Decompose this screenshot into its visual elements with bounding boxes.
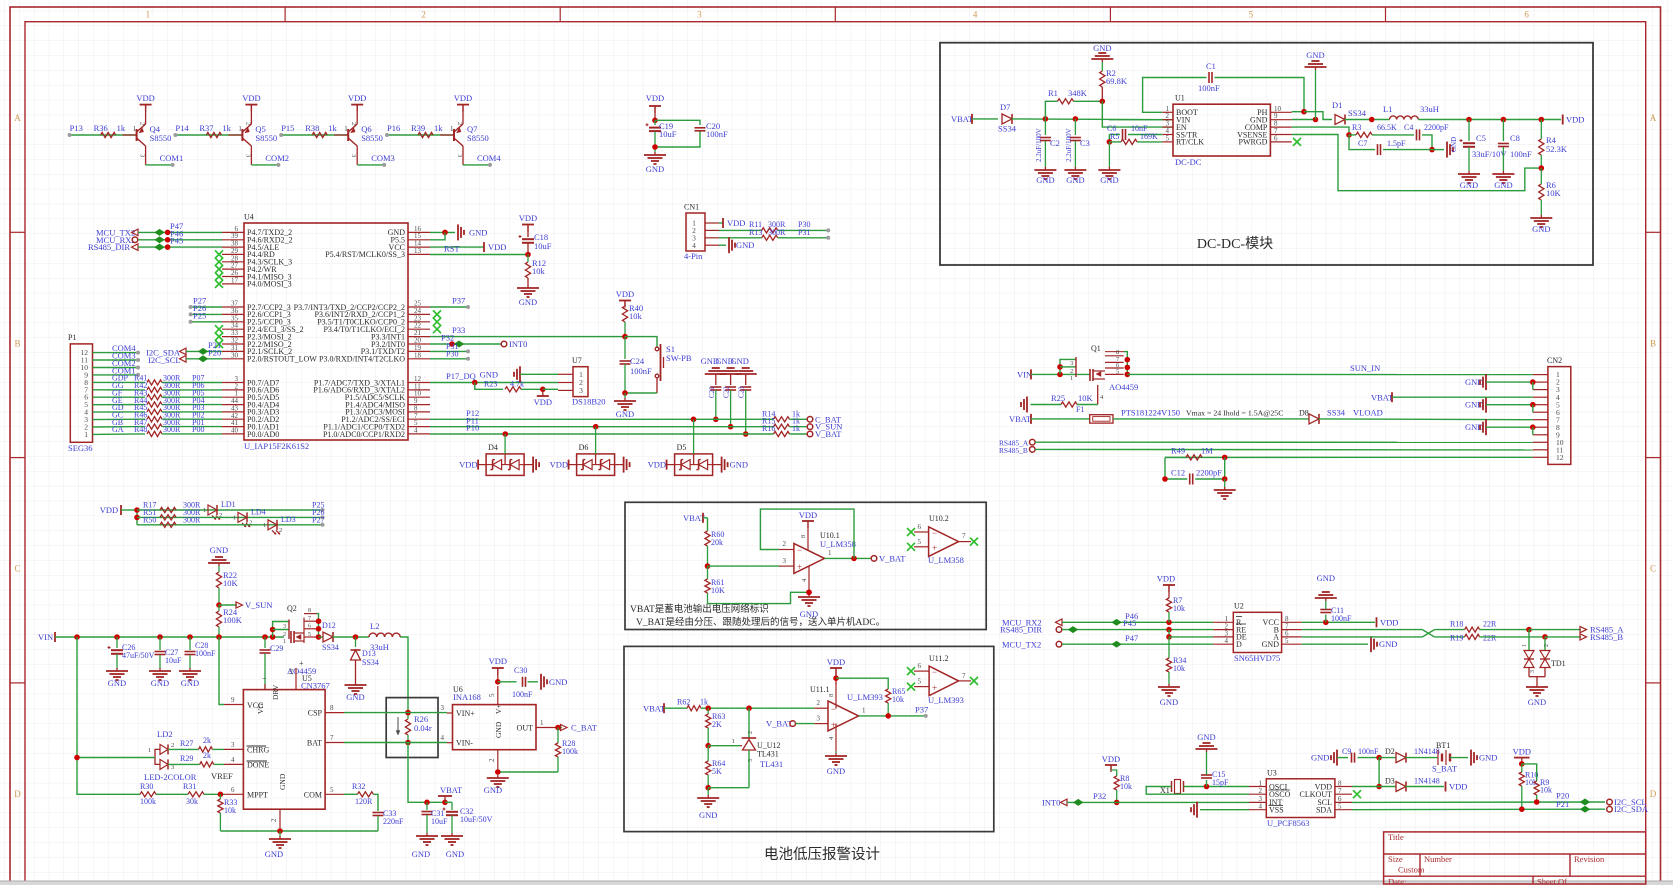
svg-text:DC-DC-模块: DC-DC-模块: [1197, 236, 1273, 252]
port RS485_DIR: [88, 242, 138, 252]
svg-text:1k: 1k: [700, 698, 708, 707]
wire collector of Q5 to COM2: [251, 146, 280, 167]
svg-text:CN2: CN2: [1547, 356, 1562, 365]
svg-text:Number: Number: [1424, 854, 1452, 864]
svg-text:13: 13: [414, 247, 422, 255]
wire plus input: [708, 565, 780, 567]
wire R49 row to CN2 pin12: [1165, 455, 1533, 461]
svg-text:C_BAT: C_BAT: [571, 723, 598, 733]
svg-text:33uH: 33uH: [370, 642, 389, 652]
port P15: [281, 123, 294, 133]
svg-text:P47: P47: [1125, 633, 1138, 643]
capacitor C32 10uF/50V: [443, 802, 493, 833]
svg-text:Revision: Revision: [1574, 854, 1605, 864]
svg-text:RT/CLK: RT/CLK: [1176, 138, 1204, 147]
svg-text:BT1: BT1: [1436, 741, 1450, 750]
svg-text:COM: COM: [304, 791, 322, 800]
svg-text:LD4: LD4: [251, 507, 266, 516]
ground below C26: [106, 668, 128, 688]
svg-text:I2C_SCL: I2C_SCL: [148, 355, 181, 365]
svg-text:300R: 300R: [183, 515, 201, 524]
svg-text:1k: 1k: [328, 123, 337, 133]
no-connects U10.2: [907, 528, 978, 551]
wire row P26: [137, 516, 323, 518]
svg-text:INT0: INT0: [509, 339, 527, 349]
wire R23 branch: [475, 383, 503, 390]
svg-text:GND: GND: [519, 297, 537, 307]
wire MCU_RX2 to pin39: [138, 237, 222, 243]
wire MCU_TX2 to D pin: [1062, 641, 1213, 647]
resistor R3 66.5K: [1349, 123, 1397, 138]
svg-text:5: 5: [1338, 803, 1342, 811]
svg-text:I2C_SDA: I2C_SDA: [1614, 804, 1649, 814]
net label COM1: [160, 153, 184, 163]
svg-text:17: 17: [231, 276, 239, 284]
svg-text:U11.2: U11.2: [929, 654, 948, 663]
resistor R39 1k: [411, 123, 454, 138]
svg-text:66.5K: 66.5K: [1377, 123, 1397, 132]
power VDD box2: [827, 657, 845, 685]
wire VDD row D3: [1352, 786, 1396, 788]
wire D12 to L2: [333, 634, 370, 640]
wire net P27 to MCU: [189, 305, 222, 309]
svg-text:VDD: VDD: [1513, 747, 1531, 757]
svg-text:D12: D12: [322, 621, 336, 630]
svg-text:3: 3: [456, 154, 463, 157]
wire output V_BAT: [825, 556, 872, 562]
svg-text:R39: R39: [411, 123, 425, 133]
svg-text:+: +: [797, 562, 802, 572]
svg-text:P13: P13: [70, 123, 83, 133]
comparator U11.2 LM393 unused: [914, 654, 971, 705]
DC-DC module box: [940, 43, 1593, 265]
svg-text:3: 3: [350, 154, 357, 157]
svg-text:5: 5: [1116, 368, 1119, 375]
resistor R44 300R: [112, 396, 222, 407]
wire P14 to base of Q5: [173, 133, 242, 137]
resistor R5 169K: [1107, 132, 1163, 145]
svg-text:GND: GND: [1450, 137, 1458, 152]
svg-text:7: 7: [330, 734, 334, 742]
ground below C2: [1034, 167, 1056, 185]
net label P27: [193, 296, 206, 306]
resistor R25 10K: [1031, 393, 1098, 407]
svg-text:3: 3: [231, 741, 235, 749]
resistor R64 5K: [705, 746, 725, 791]
power VBAT flag: [438, 785, 463, 802]
svg-text:DONE: DONE: [247, 761, 269, 770]
svg-text:DRV: DRV: [271, 684, 280, 700]
power VDD above R40: [616, 289, 634, 308]
svg-text:8: 8: [1116, 349, 1119, 356]
resistor R6 10K: [1539, 168, 1562, 200]
svg-text:5: 5: [488, 693, 496, 697]
svg-text:1: 1: [828, 549, 832, 557]
resistor R46 300R: [112, 410, 222, 422]
wire C24 branch: [624, 337, 626, 359]
svg-text:1: 1: [146, 10, 151, 20]
wire P1 pin12 COM4: [93, 351, 141, 355]
resistor R13 300R: [749, 228, 786, 240]
svg-text:10k: 10k: [1540, 786, 1552, 795]
net label COM4: [477, 153, 501, 163]
svg-text:TD1: TD1: [1551, 659, 1566, 668]
svg-text:22R: 22R: [1483, 634, 1497, 643]
wire D7 to VIN rail: [1012, 116, 1174, 122]
port INT0 rtc: [1042, 797, 1067, 807]
resistor R41 300R: [112, 374, 222, 385]
svg-text:5: 5: [308, 632, 311, 638]
svg-text:R27: R27: [180, 739, 193, 748]
net label P33: [452, 325, 465, 335]
wire Q1 gate: [1098, 385, 1104, 405]
svg-text:MCU_TX2: MCU_TX2: [1002, 639, 1041, 649]
svg-text:1: 1: [450, 125, 454, 133]
wire S1 C24 join: [622, 390, 657, 396]
no-connect PWRGD: [1293, 138, 1301, 146]
wire CSP to VIN+: [344, 712, 447, 714]
wire D1 to L1: [1345, 117, 1390, 123]
svg-text:DS18B20: DS18B20: [572, 397, 606, 407]
svg-text:VDD: VDD: [1157, 574, 1175, 584]
net label P03: [192, 403, 204, 412]
svg-text:−: −: [262, 674, 267, 683]
diode D3 1N4148: [1385, 777, 1444, 792]
diode D7 SS34: [998, 102, 1017, 134]
net label SUN_IN: [1350, 363, 1380, 373]
power VDD for Q5: [242, 93, 260, 124]
wire P1 pin8 to resistor: [93, 381, 146, 383]
port MCU_TX2 rs485: [1002, 639, 1062, 649]
port V_BAT box2: [766, 719, 814, 729]
wire VBAT to F1: [1031, 418, 1090, 420]
svg-text:P00: P00: [192, 425, 204, 434]
label VREF: [211, 771, 233, 781]
port RS485_B rs485: [1545, 632, 1623, 642]
svg-text:P21: P21: [1556, 799, 1569, 809]
svg-text:10K: 10K: [1546, 188, 1562, 198]
svg-text:U11.1: U11.1: [810, 685, 829, 694]
svg-text:GND: GND: [1160, 697, 1178, 707]
svg-text:CN1: CN1: [684, 203, 699, 212]
wire MCU_TX2 to pin6: [138, 229, 222, 235]
svg-text:6: 6: [918, 523, 922, 531]
resistor R18 22R: [1434, 620, 1531, 633]
wire SSTR C6 node: [1108, 135, 1110, 142]
capacitor C9 100nF: [1311, 747, 1382, 766]
svg-text:OUT: OUT: [517, 724, 534, 733]
wire pin13 RST to C18: [430, 252, 531, 258]
svg-text:2: 2: [244, 122, 251, 125]
svg-text:CSP: CSP: [308, 709, 323, 718]
svg-text:PTS181224V150: PTS181224V150: [1121, 408, 1180, 418]
svg-text:Date:: Date:: [1388, 877, 1406, 885]
svg-text:VDD: VDD: [648, 460, 666, 470]
ground below U11.1: [825, 751, 847, 776]
svg-text:C7: C7: [1358, 139, 1367, 148]
svg-text:1M: 1M: [1201, 446, 1213, 456]
svg-text:GND: GND: [151, 678, 169, 688]
svg-text:VIN: VIN: [1017, 370, 1032, 380]
svg-text:4: 4: [973, 10, 978, 20]
svg-text:5: 5: [1249, 10, 1254, 20]
svg-text:Vmax = 24 Ihold = 1.5A@25C: Vmax = 24 Ihold = 1.5A@25C: [1186, 409, 1283, 418]
svg-text:−: −: [831, 704, 836, 714]
net label P21: [1556, 799, 1569, 809]
svg-text:3: 3: [817, 715, 821, 723]
ground below C5: [1458, 171, 1480, 190]
svg-text:D7: D7: [1000, 102, 1010, 112]
svg-text:VDD: VDD: [100, 505, 118, 515]
ground left of R25: [1021, 397, 1027, 413]
svg-text:1: 1: [133, 125, 137, 133]
svg-text:1k: 1k: [117, 123, 126, 133]
resistor R40 10k: [622, 303, 643, 337]
svg-text:2: 2: [171, 742, 174, 749]
svg-text:GND: GND: [730, 460, 748, 470]
svg-text:1: 1: [862, 707, 866, 715]
svg-text:33uH: 33uH: [1420, 104, 1439, 114]
svg-text:COM2: COM2: [265, 153, 289, 163]
svg-text:+: +: [831, 720, 836, 730]
svg-text:3: 3: [283, 624, 286, 630]
resistor R16 1k: [762, 424, 800, 437]
svg-text:2: 2: [456, 122, 463, 125]
svg-text:1: 1: [148, 747, 151, 754]
resistor R7 10k: [1166, 596, 1185, 622]
wire net P26 to MCU: [189, 312, 222, 316]
svg-text:GND: GND: [265, 849, 283, 859]
svg-text:3: 3: [1070, 360, 1073, 367]
net label P20: [1556, 791, 1569, 801]
svg-text:300R: 300R: [163, 425, 181, 434]
svg-text:P17_DQ: P17_DQ: [446, 371, 476, 381]
svg-text:R38: R38: [305, 123, 319, 133]
net label P25: [312, 501, 325, 513]
net label COM4: [112, 343, 136, 353]
svg-text:GND: GND: [1532, 224, 1550, 234]
bottom scroll strip: [0, 881, 1673, 885]
power VDD at D6: [550, 460, 577, 470]
ground below C3: [1064, 167, 1086, 185]
svg-text:SS34: SS34: [1327, 408, 1346, 418]
LED LD3: [263, 515, 296, 535]
power VDD above C19: [646, 93, 664, 123]
svg-text:20k: 20k: [711, 538, 723, 547]
svg-text:R62: R62: [677, 698, 690, 707]
port I2C_SDA: [146, 348, 186, 358]
svg-text:VG: VG: [256, 703, 265, 714]
op-amp U10.2 LM358 unused: [914, 514, 971, 565]
wire R23 to VDD: [521, 387, 558, 393]
svg-text:C12: C12: [1171, 468, 1185, 478]
capacitor C12 2200pF: [1162, 457, 1227, 484]
svg-text:5: 5: [330, 786, 334, 794]
svg-text:SS34: SS34: [362, 658, 379, 667]
wire I2C_SDA to pin31: [186, 348, 222, 354]
op-amp U10.1 LM358: [779, 521, 856, 592]
svg-text:10K: 10K: [1078, 393, 1094, 403]
svg-text:D: D: [1236, 640, 1242, 649]
svg-text:R16: R16: [762, 424, 775, 433]
svg-text:P1.0/ADC0/CCP1/RXD2: P1.0/ADC0/CCP1/RXD2: [323, 430, 405, 439]
svg-text:C24: C24: [630, 356, 645, 366]
wire VIN to Q1: [1031, 372, 1090, 378]
svg-text:S8550: S8550: [361, 133, 383, 143]
wire I2C_SCL to pin30: [186, 356, 222, 362]
port I2C_SDA: [1607, 804, 1649, 814]
svg-text:1: 1: [238, 125, 242, 133]
net label P37 at pin25: [452, 296, 465, 306]
ground below R6: [1530, 200, 1552, 234]
svg-text:U1: U1: [1175, 94, 1185, 103]
svg-text:U_LM393: U_LM393: [847, 692, 883, 702]
svg-text:D3: D3: [1385, 777, 1395, 786]
svg-text:R31: R31: [183, 782, 196, 791]
capacitor C27 10uF: [155, 637, 183, 668]
svg-text:P0.0/AD0: P0.0/AD0: [247, 430, 279, 439]
svg-text:D2: D2: [1385, 747, 1395, 756]
wire R13 to P31: [778, 228, 831, 240]
port C_BAT out: [561, 723, 598, 733]
svg-text:C30: C30: [514, 666, 527, 675]
sensor U7 DS18B20 body: [558, 356, 606, 407]
svg-text:RS485_DIR: RS485_DIR: [88, 242, 130, 252]
port VBAT to fuse: [1009, 414, 1032, 424]
resistor R34 10k: [1166, 637, 1186, 684]
svg-text:5K: 5K: [712, 767, 722, 776]
wire pin7 P12 long: [430, 408, 774, 419]
svg-text:2: 2: [817, 699, 821, 707]
svg-text:LED-2COLOR: LED-2COLOR: [144, 772, 197, 782]
connector CN2 body: [1533, 356, 1571, 464]
diode pack D4 body: [486, 443, 524, 475]
svg-text:COM3: COM3: [371, 153, 395, 163]
battery BT1 S_BAT: [1406, 741, 1458, 774]
wire VBAT to D7: [972, 118, 998, 120]
resistor R62 1k: [677, 698, 814, 712]
resistor R47 300R: [112, 418, 222, 429]
wire P1 pin10 COM2: [93, 366, 141, 370]
svg-text:GND: GND: [1197, 732, 1215, 742]
ground box2: [697, 788, 719, 820]
net label P25: [193, 310, 206, 320]
svg-text:D8: D8: [1299, 409, 1309, 418]
port VBAT box2: [643, 703, 687, 713]
svg-text:2: 2: [1544, 644, 1550, 647]
svg-text:R25: R25: [1051, 393, 1065, 403]
wire pin21 P33 to switch node: [430, 336, 625, 338]
svg-text:VDD: VDD: [459, 460, 477, 470]
svg-text:−: −: [932, 667, 937, 677]
svg-text:MPPT: MPPT: [247, 791, 268, 800]
svg-text:100K: 100K: [223, 615, 243, 625]
resistor R63 2K: [705, 708, 725, 748]
svg-text:SS34: SS34: [1348, 108, 1367, 118]
svg-text:Q2: Q2: [287, 604, 297, 613]
wire collector of Q6 to COM3: [357, 146, 386, 167]
wire P1 pin6 to resistor: [93, 396, 146, 398]
svg-text:10k: 10k: [224, 806, 236, 815]
ground above C22: [715, 356, 741, 377]
svg-text:GND: GND: [646, 164, 664, 174]
note Vmax Ihold: [1186, 409, 1283, 418]
resistor R36 1k: [94, 123, 137, 138]
svg-text:10uF: 10uF: [431, 817, 448, 826]
svg-text:1k: 1k: [792, 424, 800, 433]
svg-text:U4: U4: [244, 213, 254, 222]
svg-text:8: 8: [330, 704, 334, 712]
ground box1: [798, 590, 820, 620]
ground right of BT1: [1450, 750, 1497, 766]
svg-text:P16: P16: [387, 123, 400, 133]
wire D6 center to bus: [595, 427, 597, 454]
svg-text:22R: 22R: [1483, 620, 1497, 629]
capacitor C19 10uF: [646, 120, 677, 152]
svg-text:VDD: VDD: [799, 510, 817, 520]
wire RS485_DIR to RE DE: [1062, 627, 1213, 640]
fuse F1 PTS181224V150: [1076, 405, 1113, 423]
capacitor C11 100nF: [1320, 601, 1352, 623]
alarm box 2: [624, 646, 994, 831]
transistor Q7 S8550: [450, 122, 489, 157]
ground below C19: [644, 152, 666, 174]
svg-text:47uF/50V: 47uF/50V: [122, 651, 155, 660]
net label P17_DQ: [446, 371, 476, 381]
LED LD4: [233, 507, 266, 527]
net arrow V_SUN: [219, 600, 272, 610]
svg-text:S8550: S8550: [467, 133, 489, 143]
svg-text:VIN: VIN: [38, 632, 53, 642]
capacitor C24 100nF: [620, 356, 653, 393]
wire net P25 to MCU: [189, 320, 222, 324]
svg-text:V_BAT: V_BAT: [815, 429, 842, 439]
wire RS485_DIR to pin38: [138, 244, 222, 250]
ground at U1 GND pin: [1292, 50, 1327, 122]
wire output P37: [859, 713, 928, 719]
svg-text:4: 4: [1225, 637, 1229, 645]
svg-text:GND: GND: [699, 810, 717, 820]
wire PH to output: [1292, 109, 1332, 120]
svg-text:P10: P10: [466, 423, 479, 433]
connector P1 SEG36 body: [68, 333, 93, 453]
capacitor C6 10nF: [1107, 124, 1162, 140]
svg-text:VDD: VDD: [616, 289, 634, 299]
svg-text:2: 2: [283, 632, 286, 638]
net label P31: [446, 342, 458, 351]
svg-text:V_SUN: V_SUN: [245, 600, 272, 610]
net label COM2: [112, 358, 136, 368]
ground above R2: [1091, 43, 1113, 71]
svg-text:4: 4: [414, 426, 418, 434]
power VDD at D4: [459, 460, 486, 470]
wire pin20 P32 INT0: [430, 341, 501, 347]
svg-text:VBAT: VBAT: [440, 785, 463, 795]
ground below R12: [517, 278, 539, 307]
svg-text:RS485_B: RS485_B: [1590, 632, 1623, 642]
amplifier U6 INA168 body: [441, 685, 557, 772]
resistor R31 30k: [183, 782, 224, 806]
power VDD above U6: [489, 656, 507, 685]
svg-text:U_LM393: U_LM393: [928, 695, 964, 705]
net label P46 rs485: [1125, 611, 1138, 621]
svg-text:SUN_IN: SUN_IN: [1350, 363, 1380, 373]
port V_BAT box1: [871, 553, 906, 563]
svg-text:1: 1: [233, 514, 236, 521]
svg-text:7: 7: [1338, 787, 1342, 795]
ground below C32: [441, 833, 464, 859]
svg-text:S_BAT: S_BAT: [1432, 764, 1458, 774]
